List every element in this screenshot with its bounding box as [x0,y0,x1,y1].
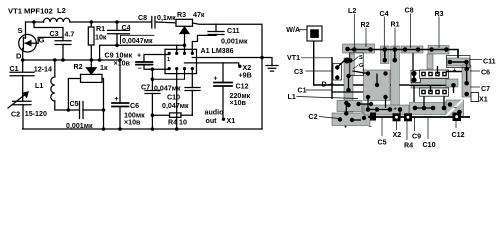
pcb trace under IC [411,79,449,89]
svg-text:C3: C3 [294,68,303,76]
svg-text:VT1: VT1 [287,54,300,62]
pads bottom row [366,106,447,112]
svg-text:47к: 47к [193,11,205,19]
svg-text:C12: C12 [452,131,465,139]
pcb trace C12 [445,100,464,117]
transistor footprint VT1 [349,53,363,76]
svg-text:L2: L2 [348,7,356,15]
label 0,0047mk box [121,35,155,43]
wire bus to C11 [446,50,458,59]
inductor L1 [51,60,69,110]
svg-text:×10в: ×10в [114,60,131,68]
antenna W/A [307,26,322,41]
capacitor C4 [108,22,130,45]
svg-text:C12: C12 [236,83,249,91]
svg-text:C4: C4 [380,10,389,18]
svg-text:1: 1 [167,57,170,63]
svg-text:C6: C6 [130,102,139,110]
svg-text:C7: C7 [141,83,150,91]
node bottom rail junctions [102,127,179,131]
pcb left edge [331,57,333,99]
node C5 left junction [67,108,71,112]
pcb traces right [446,58,471,97]
capacitor C12 [214,63,232,118]
svg-text:C6: C6 [481,69,490,77]
node R4 left junction [151,113,155,117]
leader S G [353,57,359,70]
capacitor C5 [68,102,103,119]
node R3 wiper junction [183,44,187,48]
svg-text:L1: L1 [35,82,43,90]
mid rail wire [23,59,120,61]
svg-text:R2: R2 [361,21,370,29]
node C4 bottom junction [115,44,119,48]
svg-text:+: + [214,75,218,83]
wire pin3B branch [152,69,184,80]
svg-text:C2: C2 [11,111,20,119]
svg-text:C4: C4 [122,24,131,32]
capacitor C3 [55,41,71,60]
resistor R4 [152,113,192,117]
terminal X1 [222,118,225,121]
potentiometer R3 [176,19,193,53]
pcb board outline [331,43,470,117]
capacitor C7 [145,69,160,129]
svg-text:C1: C1 [10,65,19,73]
svg-text:R1: R1 [96,25,105,33]
capacitor C6 [112,60,129,129]
pin dots IC [168,52,194,70]
svg-text:10к: 10к [95,34,107,42]
leader W/A [298,29,307,31]
capacitor C11 footprint [447,56,471,68]
svg-text:0,001мк: 0,001мк [221,38,248,46]
capacitor C3 footprint [333,64,342,81]
op-amp U1 LM386 [165,49,197,73]
capacitor C11 [192,24,224,53]
node ground rail junction [260,56,264,60]
svg-text:×10в: ×10в [124,119,141,127]
jumper wires bottom [352,96,444,120]
svg-text:X1: X1 [479,96,488,104]
pcb traces top row [343,44,450,114]
node C4 top junction [115,20,119,24]
IC footprint A1 [411,70,449,96]
svg-text:out: out [206,117,218,125]
svg-text:C5: C5 [70,100,79,108]
node C3 bottom junction [61,58,65,62]
svg-text:C3: C3 [50,30,59,38]
svg-text:A1 LM386: A1 LM386 [201,47,234,55]
inductor L2 [44,18,70,22]
capacitor C9 [136,55,169,70]
svg-text:R2: R2 [74,63,83,71]
bottom rail wire [23,128,262,130]
svg-text:4.7: 4.7 [65,31,75,39]
potentiometer R2 [68,60,103,129]
svg-text:L2: L2 [57,6,66,15]
svg-text:0,047мк: 0,047мк [162,102,189,110]
node L2-R1 junction [90,20,94,24]
label audio out [205,109,225,126]
node R1 bottom junction [90,58,94,62]
wire C4 to amp input [100,45,185,60]
svg-text:S: S [359,55,363,61]
svg-text:C2: C2 [309,113,318,121]
wire mid bus [409,84,455,86]
bottom labels leaders [382,117,456,140]
svg-text:L1: L1 [288,93,296,101]
jumper wires right [446,62,467,93]
pcb bottom edge [368,116,470,118]
svg-text:X1: X1 [227,117,236,125]
pads left cluster [335,58,388,123]
svg-text:C1: C1 [298,86,307,94]
wire top bus [348,49,447,51]
svg-text:S: S [18,26,23,35]
node drain-C4 wire junction [98,58,102,62]
svg-text:15-120: 15-120 [25,110,47,118]
node C7 pin3 junction [151,77,155,81]
svg-text:+: + [137,52,141,60]
svg-text:−: − [138,65,142,73]
svg-text:C11: C11 [483,58,496,66]
node C6 top junction [118,58,122,62]
svg-text:C9 10мк: C9 10мк [105,52,133,60]
svg-text:D: D [322,81,327,89]
svg-text:VT1 MPF102: VT1 MPF102 [8,7,53,16]
jumper wires pcb left [332,59,386,114]
svg-text:R3: R3 [435,10,444,18]
node drain junction [21,58,25,62]
connector X1 pcb [471,93,479,102]
svg-text:C11: C11 [227,27,240,35]
svg-text:R4 10: R4 10 [168,119,187,127]
wire output pin4 right [192,57,262,59]
svg-text:C10: C10 [423,141,436,149]
resistor R1 [88,22,94,60]
pads right [448,60,469,97]
wire pin2B down [176,69,178,129]
left labels leaders [297,58,359,119]
svg-text:C5: C5 [378,139,387,147]
svg-text:C8: C8 [405,7,414,15]
wire strip drops [385,50,395,61]
svg-text:1к: 1к [100,64,108,72]
pcb traces left cluster [332,58,449,126]
svg-text:C7: C7 [481,85,490,93]
terminal X2 [238,65,241,68]
node L1 top junction [53,58,57,62]
right labels leaders [470,60,482,98]
plus marks bottom [344,106,458,131]
svg-text:+: + [115,95,119,103]
svg-text:C9: C9 [412,133,421,141]
wire antenna to board [314,41,409,85]
svg-text:0,1мк: 0,1мк [157,14,176,22]
svg-text:0,0047мк: 0,0047мк [122,37,153,45]
top labels leaders [354,14,439,49]
svg-text:R4: R4 [404,142,413,150]
variable capacitor C2 [8,92,31,129]
svg-text:G: G [359,63,363,69]
capacitor C8 [152,17,155,29]
pads bottom terminals [370,113,461,122]
wire gate branch [34,22,63,43]
svg-text:R1: R1 [391,21,400,29]
node S junction [32,20,36,24]
node C7 top junction [151,67,155,71]
svg-text:X2: X2 [393,131,402,139]
svg-text:C8: C8 [138,14,147,22]
pads top row [345,47,449,63]
svg-text:×10в: ×10в [230,99,247,107]
wire pin5 to X2 and C12 [185,63,239,66]
jumper wires ic [413,53,438,102]
node C5 right junction [102,108,106,112]
ground [262,58,278,72]
svg-text:R3: R3 [177,11,186,19]
transistor VT1 [19,22,37,60]
capacitor C1 [10,60,34,101]
svg-text:+9В: +9В [239,72,252,80]
svg-text:12-14: 12-14 [34,66,52,74]
wire top rail [26,22,263,129]
svg-text:C10: C10 [167,94,180,102]
svg-text:D: D [16,52,22,61]
capacitor C10 [185,69,200,116]
svg-text:audio: audio [205,109,225,117]
